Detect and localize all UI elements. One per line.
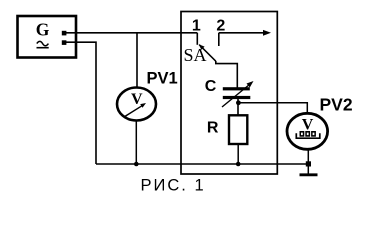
svg-text:C: C: [205, 78, 217, 95]
capacitor C bottom plate: [223, 96, 251, 99]
wire resistor to common: [237, 144, 239, 164]
voltmeter PV2: [287, 113, 328, 149]
switch SA lever: [199, 45, 216, 62]
wire from contact 2: [219, 32, 264, 34]
svg-text:2: 2: [216, 18, 225, 35]
wire G lower output down to common: [66, 42, 96, 164]
svg-text:PV2: PV2: [320, 95, 353, 115]
wire PV1 bottom branch: [135, 119, 137, 164]
PV2 digital display: [296, 131, 320, 138]
PV1 needle: [124, 103, 146, 117]
svg-text:G: G: [36, 20, 50, 40]
generator G1 box: [18, 16, 77, 58]
junction node resistor-common: [236, 162, 241, 167]
wire capacitor to resistor: [237, 99, 239, 115]
wire switch pole to capacitor: [216, 61, 238, 88]
svg-text:PV1: PV1: [147, 70, 178, 88]
arrowhead on contact-2 wire: [263, 30, 271, 36]
svg-text:R: R: [207, 120, 219, 137]
wire capacitor junction to PV2 top: [238, 103, 307, 114]
contact 1 stub: [196, 33, 198, 45]
wire G upper output to contact 1: [66, 32, 197, 34]
svg-text:РИС. 1: РИС. 1: [141, 177, 206, 195]
svg-text:V: V: [302, 117, 314, 134]
terminal dot upper: [62, 31, 67, 36]
terminal node PV2-common: [306, 161, 311, 166]
AC waveform symbol: [37, 41, 49, 47]
wire PV2 bottom to ground: [307, 149, 309, 175]
capacitor C top plate: [223, 87, 250, 90]
contact 2 stub: [218, 33, 220, 46]
svg-text:SA: SA: [184, 45, 207, 65]
switch SA lever arrowhead: [199, 44, 205, 50]
svg-text:1: 1: [192, 18, 201, 35]
junction node PV1-common: [134, 162, 139, 167]
wire PV1 top branch: [136, 33, 138, 89]
resistor R body: [229, 115, 247, 144]
common bottom wire: [96, 163, 308, 165]
device enclosure box: [181, 12, 277, 175]
ground symbol: [300, 173, 318, 176]
junction node capacitor output: [236, 100, 241, 105]
terminal dot lower: [62, 40, 67, 45]
variable capacitor arrow: [222, 81, 254, 107]
voltmeter PV1: [117, 88, 156, 121]
